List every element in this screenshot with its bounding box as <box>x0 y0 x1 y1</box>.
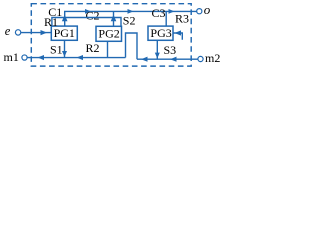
svg-text:C2: C2 <box>86 9 100 23</box>
wire m2 rail <box>137 58 198 60</box>
svg-text:C3: C3 <box>152 6 166 20</box>
node m1 circle <box>22 55 27 60</box>
arrow right on bus 2 <box>128 9 134 14</box>
wire S2 feedback rail from PG1 top-left to PG2 top-right <box>52 18 121 27</box>
wire bridge from m1 rail up and over to m2 rail <box>126 33 138 59</box>
node m2 circle <box>198 56 203 61</box>
arrow up on C2 <box>111 15 117 21</box>
wire S3 drop from PG3 bottom <box>156 40 158 59</box>
svg-text:m2: m2 <box>205 51 220 65</box>
node e circle <box>15 30 20 35</box>
arrow down on S3 <box>155 53 160 59</box>
arrow right on bus 1 <box>85 9 91 14</box>
wire S1 drop from PG1 bottom <box>64 40 66 57</box>
arrow left on m1 rail 1 <box>38 55 45 60</box>
arrow down on S1 <box>62 51 67 57</box>
arrow right on bus 3 <box>169 9 175 14</box>
box PG1 <box>51 26 77 40</box>
svg-text:S3: S3 <box>164 43 177 57</box>
svg-text:S2: S2 <box>123 14 136 28</box>
background <box>0 0 224 73</box>
wire m1 rail <box>27 57 125 59</box>
wire R3 stub into PG3 right side <box>173 33 182 40</box>
wire C3 vertical <box>165 11 167 26</box>
svg-text:e: e <box>5 24 11 38</box>
svg-text:R2: R2 <box>86 41 100 55</box>
node o circle <box>197 9 202 14</box>
box PG3 <box>148 26 173 40</box>
svg-text:PG2: PG2 <box>98 26 119 40</box>
svg-text:o: o <box>204 2 211 17</box>
wire e to R1 input of PG1 <box>21 32 52 34</box>
wire C2 vertical <box>113 11 115 26</box>
arrow left into PG3 on R3 <box>175 30 182 35</box>
arrow right into PG1 <box>41 30 48 35</box>
arrow left on m2 rail 1 <box>141 57 148 62</box>
svg-text:R1: R1 <box>44 15 58 29</box>
svg-text:m1: m1 <box>4 50 19 64</box>
arrow up on C1 <box>62 15 68 21</box>
svg-text:PG3: PG3 <box>150 26 171 40</box>
wire C1 vertical and top output bus to node o <box>65 11 197 26</box>
arrow left on m1 rail 2 <box>77 55 84 60</box>
svg-text:R3: R3 <box>175 11 189 25</box>
wire R2 riser into PG2 bottom <box>107 41 109 57</box>
svg-text:S1: S1 <box>50 42 63 56</box>
dashed module boundary <box>31 4 191 66</box>
arrow left on m2 rail 2 <box>170 57 177 62</box>
box PG2 <box>96 26 122 41</box>
